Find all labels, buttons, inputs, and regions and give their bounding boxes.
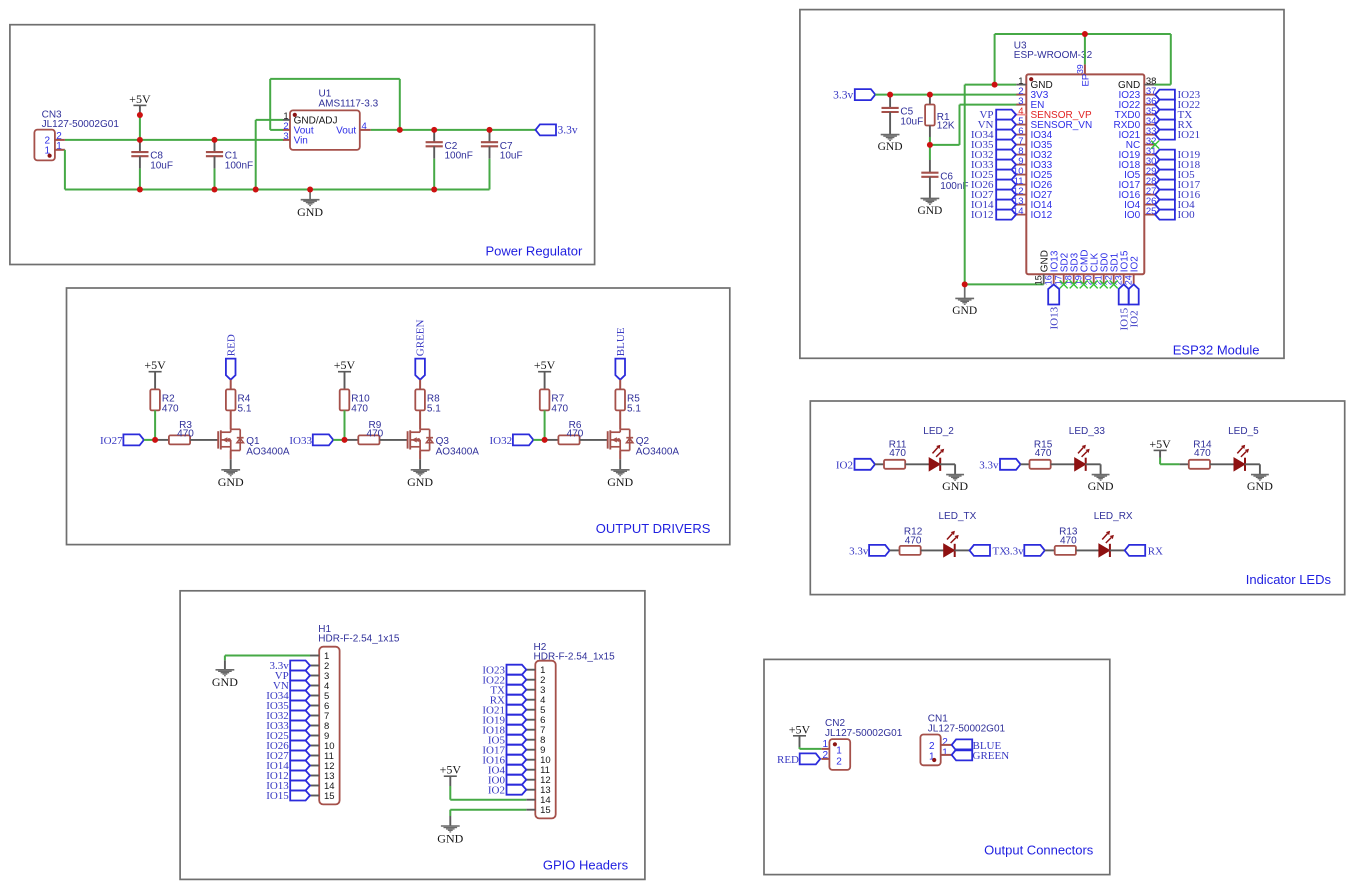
svg-text:470: 470 xyxy=(351,404,368,415)
U3 pin 2 3V3 xyxy=(1016,94,1026,96)
svg-text:1: 1 xyxy=(942,748,948,759)
ground symbol C6 xyxy=(921,198,940,204)
H2 pin 11 xyxy=(526,769,535,771)
svg-text:470: 470 xyxy=(567,428,584,439)
svg-text:IO2: IO2 xyxy=(1128,310,1140,327)
svg-text:IO12: IO12 xyxy=(971,209,994,221)
svg-text:Vin: Vin xyxy=(294,136,308,147)
block OUTPUT DRIVERS xyxy=(67,288,730,545)
U3 pin 15 GND xyxy=(1043,274,1045,284)
+5V symbol driver Q1 xyxy=(149,371,162,373)
net flag IO17 H2 xyxy=(507,745,527,755)
H2 pin 4 xyxy=(526,699,535,701)
wire CN3 pin2 to U1 Vin xyxy=(65,139,284,141)
svg-text:GND: GND xyxy=(218,475,244,489)
H1 pin 7 xyxy=(310,715,319,717)
net flag IO19 xyxy=(1155,150,1175,160)
svg-text:+5V: +5V xyxy=(334,358,356,372)
svg-text:470: 470 xyxy=(905,536,922,547)
LED LED_RX xyxy=(1076,549,1099,551)
chip U3 ESP-WROOM-32 xyxy=(1026,74,1144,274)
svg-text:24: 24 xyxy=(1124,275,1134,285)
U1 pin 4 Vout xyxy=(360,129,371,131)
svg-text:GND: GND xyxy=(917,205,942,217)
svg-text:LED_TX: LED_TX xyxy=(939,511,977,522)
wire ground rail xyxy=(65,189,490,191)
U3 pin 39 EP xyxy=(1084,64,1086,74)
svg-text:470: 470 xyxy=(1194,448,1211,459)
svg-text:+5V: +5V xyxy=(1149,437,1171,451)
header H1 xyxy=(319,647,339,805)
net flag IO26 H1 xyxy=(290,741,310,751)
U3 pin 35 TXD0 xyxy=(1144,114,1155,116)
svg-text:GREEN: GREEN xyxy=(973,750,1010,762)
net flag IO15 H1 xyxy=(290,791,310,801)
net flag RED cn2 xyxy=(800,753,821,764)
net flag IO2 bottom xyxy=(1129,284,1139,304)
net flag IO33 xyxy=(996,160,1016,170)
LED LED_2 xyxy=(905,463,929,465)
net flag IO23 H2 xyxy=(507,665,527,675)
U3 pin 19 CMD xyxy=(1083,274,1085,284)
net flag TX xyxy=(954,549,969,551)
H2 pin 10 xyxy=(526,759,535,761)
H2 pin 6 xyxy=(526,719,535,721)
U3 pin 38 GND xyxy=(1144,84,1154,86)
block Indicator LEDs xyxy=(810,401,1344,595)
wire H2 pin15 to GND xyxy=(450,809,526,811)
connector CN3 xyxy=(34,130,55,161)
net flag VN H1 xyxy=(290,681,310,691)
svg-text:3.3v: 3.3v xyxy=(833,89,853,101)
U3 pin 8 IO32 xyxy=(1016,154,1026,156)
svg-text:Output Connectors: Output Connectors xyxy=(984,843,1094,858)
net flag IO12 H1 xyxy=(290,771,310,781)
U3 pin 14 IO12 xyxy=(1016,214,1026,216)
svg-text:100nF: 100nF xyxy=(225,161,253,172)
svg-text:JL127-50002G01: JL127-50002G01 xyxy=(928,723,1006,734)
U3 pin 31 IO19 xyxy=(1144,154,1155,156)
H2 pin 3 xyxy=(526,689,535,691)
H2 pin 15 xyxy=(526,809,535,811)
CN2 pin 2 stub xyxy=(821,758,829,760)
net flag IO4 H2 xyxy=(507,765,527,775)
block Power Regulator xyxy=(10,25,595,265)
svg-text:470: 470 xyxy=(162,404,179,415)
H2 pin 12 xyxy=(526,779,535,781)
svg-text:470: 470 xyxy=(1060,536,1077,547)
capacitor C6 xyxy=(929,145,931,160)
U3 pin 3 EN xyxy=(1016,104,1026,106)
H2 pin 2 xyxy=(526,679,535,681)
U3 pin 10 IO25 xyxy=(1016,174,1026,176)
H1 pin 4 xyxy=(310,685,319,687)
regulator U1 xyxy=(290,110,360,149)
wire pullup to gate node xyxy=(154,410,156,440)
ground symbol power xyxy=(309,190,311,200)
+5V symbol driver Q3 xyxy=(338,371,351,373)
svg-text:5.1: 5.1 xyxy=(627,404,641,415)
wire ESP pin15 GND xyxy=(965,283,1044,285)
U3 pin 29 IO5 xyxy=(1144,174,1155,176)
net flag IO33 H1 xyxy=(290,721,310,731)
wire +5V to CN2 pin1 xyxy=(799,747,801,749)
net flag IO25 H1 xyxy=(290,731,310,741)
svg-text:BLUE: BLUE xyxy=(615,327,627,356)
wire 3.3v to ESP 3V3 xyxy=(875,94,1021,96)
net flag IO32 xyxy=(996,150,1016,160)
+5V symbol power xyxy=(133,104,146,106)
svg-text:+5V: +5V xyxy=(440,763,462,777)
svg-text:16: 16 xyxy=(1044,275,1054,285)
U3 pin 32 NC xyxy=(1144,144,1155,146)
capacitor C8 xyxy=(139,142,141,153)
resistor R14 xyxy=(1189,460,1210,469)
net flag BLUE cn1 xyxy=(952,739,973,750)
wire U1 ADJ to ground rail xyxy=(256,119,283,121)
block GPIO Headers xyxy=(180,591,645,880)
svg-text:IO33: IO33 xyxy=(289,435,312,447)
+5V symbol driver Q2 xyxy=(538,371,551,373)
svg-text:+5V: +5V xyxy=(129,92,151,106)
svg-text:12K: 12K xyxy=(937,121,955,132)
resistor R4 xyxy=(226,389,236,410)
net flag IO4 xyxy=(1155,200,1175,210)
wire +5V to H2 pin14 xyxy=(449,786,451,800)
net flag IO32 xyxy=(513,434,534,445)
U3 pin 17 SD2 xyxy=(1063,274,1065,284)
svg-text:5.1: 5.1 xyxy=(427,404,441,415)
net flag IO35 xyxy=(996,140,1016,150)
net flag IO2 led xyxy=(855,459,876,470)
U1 pin 3 Vin xyxy=(283,139,290,141)
svg-text:GND: GND xyxy=(407,475,433,489)
H1 pin 10 xyxy=(310,745,319,747)
U3 pin 30 IO18 xyxy=(1144,164,1155,166)
wire ESP GND top rail xyxy=(995,33,1171,35)
net flag TX xyxy=(1155,110,1175,120)
U3 pin 7 IO35 xyxy=(1016,144,1026,146)
connector CN2 xyxy=(829,739,850,770)
H2 pin 5 xyxy=(526,709,535,711)
svg-text:3.3v: 3.3v xyxy=(849,546,869,558)
H1 pin 11 xyxy=(310,755,319,757)
CN2 pin 1 stub xyxy=(821,748,829,750)
transistor Q2 xyxy=(607,431,609,448)
resistor R9 xyxy=(345,439,359,441)
U3 pin 20 CLK xyxy=(1093,274,1095,284)
U3 pin 1 GND xyxy=(1016,84,1026,86)
svg-text:10uF: 10uF xyxy=(900,116,923,127)
net flag IO5 H2 xyxy=(507,735,527,745)
svg-text:17: 17 xyxy=(1054,275,1064,285)
resistor R6 xyxy=(545,439,559,441)
svg-text:IO2: IO2 xyxy=(1129,256,1140,273)
capacitor C1 xyxy=(214,142,216,153)
svg-text:Vout: Vout xyxy=(336,126,356,137)
net flag IO26 xyxy=(996,180,1016,190)
svg-text:GND: GND xyxy=(942,479,968,493)
U3 pin 24 IO2 xyxy=(1133,274,1135,284)
U3 pin 4 SENSOR_VP xyxy=(1016,114,1026,116)
wire pullup to gate node xyxy=(544,410,546,440)
svg-text:470: 470 xyxy=(551,404,568,415)
H2 pin 13 xyxy=(526,789,535,791)
svg-text:39: 39 xyxy=(1075,64,1085,74)
svg-text:HDR-F-2.54_1x15: HDR-F-2.54_1x15 xyxy=(318,633,400,644)
U1 pin 2 Vout xyxy=(283,129,290,131)
capacitor C2 xyxy=(433,132,435,143)
U3 pin 33 IO21 xyxy=(1144,134,1155,136)
svg-text:1: 1 xyxy=(836,746,842,757)
svg-text:Power Regulator: Power Regulator xyxy=(485,243,582,258)
svg-text:GND: GND xyxy=(878,141,903,153)
net flag IO0 H2 xyxy=(507,775,527,785)
U3 pin 23 IO15 xyxy=(1123,274,1125,284)
svg-text:+5V: +5V xyxy=(534,358,556,372)
net flag IO27 xyxy=(123,434,143,445)
U3 pin 34 RXD0 xyxy=(1144,124,1155,126)
net flag IO16 xyxy=(1155,190,1175,200)
net flag RX xyxy=(1155,120,1175,130)
H2 pin 8 xyxy=(526,739,535,741)
net flag IO21 xyxy=(1155,130,1175,140)
U3 pin 12 IO27 xyxy=(1016,194,1026,196)
svg-text:+5V: +5V xyxy=(144,358,166,372)
H1 pin 15 xyxy=(310,795,319,797)
H1 pin 5 xyxy=(310,695,319,697)
net flag RED xyxy=(226,359,236,380)
svg-text:GND: GND xyxy=(952,305,977,317)
H2 pin 9 xyxy=(526,749,535,751)
junction dots xyxy=(137,112,143,118)
capacitor C7 xyxy=(489,132,491,143)
svg-text:IO2: IO2 xyxy=(488,784,505,796)
H1 pin 3 xyxy=(310,675,319,677)
block ESP32 Module xyxy=(800,10,1284,359)
net flag IO22 H2 xyxy=(507,675,527,685)
net flag 3.3v H1 xyxy=(290,661,310,671)
net flag GREEN xyxy=(415,359,425,380)
net flag IO33 xyxy=(313,434,334,445)
svg-text:470: 470 xyxy=(1035,448,1052,459)
svg-text:OUTPUT DRIVERS: OUTPUT DRIVERS xyxy=(596,521,711,536)
net flag IO23 xyxy=(1155,90,1175,100)
resistor R10 xyxy=(340,389,350,410)
U3 pin 25 IO0 xyxy=(1144,214,1155,216)
CN1 pin 2 stub xyxy=(941,744,952,746)
U1 pin 1 GND/ADJ xyxy=(283,119,290,121)
svg-text:GND: GND xyxy=(437,831,463,845)
H1 pin 9 xyxy=(310,735,319,737)
U3 pin 5 SENSOR_VN xyxy=(1016,124,1026,126)
CN3 pin 2 stub xyxy=(55,139,65,141)
svg-text:IO2: IO2 xyxy=(836,460,853,472)
net flag IO25 xyxy=(996,170,1016,180)
net flag RX xyxy=(1110,549,1125,551)
U3 pin 27 IO16 xyxy=(1144,194,1155,196)
transistor Q3 xyxy=(407,431,409,448)
+5V symbol CN2 xyxy=(793,735,806,737)
svg-text:LED_5: LED_5 xyxy=(1228,426,1259,437)
svg-text:100nF: 100nF xyxy=(445,151,473,162)
H1 pin 6 xyxy=(310,705,319,707)
ground symbol ESP xyxy=(964,284,966,298)
resistor R2 xyxy=(150,389,160,410)
resistor R5 xyxy=(615,389,625,410)
net flag IO22 xyxy=(1155,100,1175,110)
svg-text:3.3v: 3.3v xyxy=(558,125,578,137)
U3 pin 22 SD1 xyxy=(1113,274,1115,284)
ground symbol C5 xyxy=(881,135,900,141)
svg-text:JL127-50002G01: JL127-50002G01 xyxy=(42,119,120,130)
connector CN1 xyxy=(920,735,940,766)
net flag VN xyxy=(996,120,1016,130)
net flag IO19 H2 xyxy=(507,715,527,725)
svg-text:3.3v: 3.3v xyxy=(979,460,999,472)
CN1 pin 1 stub xyxy=(941,754,952,756)
transistor Q1 xyxy=(217,431,219,448)
ground Q2 xyxy=(619,451,621,460)
svg-text:15: 15 xyxy=(1034,275,1044,285)
net flag IO15 bottom xyxy=(1119,284,1129,304)
svg-text:470: 470 xyxy=(367,428,384,439)
resistor R3 xyxy=(155,439,169,441)
LED LED_5 xyxy=(1210,463,1234,465)
H1 pin 2 xyxy=(310,665,319,667)
U3 pin 16 IO13 xyxy=(1053,274,1055,284)
ground symbol H1 xyxy=(216,670,235,676)
net flag IO12 xyxy=(996,210,1016,220)
svg-text:GND: GND xyxy=(1088,479,1114,493)
svg-text:GND: GND xyxy=(607,475,633,489)
resistor R12 xyxy=(890,549,900,551)
svg-text:IO0: IO0 xyxy=(1178,209,1196,221)
wire pullup to gate node xyxy=(344,410,346,440)
svg-text:2: 2 xyxy=(942,737,948,748)
U3 pin 37 IO23 xyxy=(1144,94,1155,96)
svg-text:Indicator LEDs: Indicator LEDs xyxy=(1246,572,1332,587)
wire H1 pin1 to GND xyxy=(225,655,310,657)
resistor R8 xyxy=(415,389,425,410)
H1 pin 8 xyxy=(310,725,319,727)
svg-text:IO32: IO32 xyxy=(489,435,512,447)
net flag IO35 H1 xyxy=(290,701,310,711)
net flag IO5 xyxy=(1155,170,1175,180)
svg-text:GPIO Headers: GPIO Headers xyxy=(543,858,629,873)
svg-text:2: 2 xyxy=(929,741,935,752)
H2 pin 7 xyxy=(526,729,535,731)
H1 pin 12 xyxy=(310,765,319,767)
U3 pin 6 IO34 xyxy=(1016,134,1026,136)
svg-text:AMS1117-3.3: AMS1117-3.3 xyxy=(319,98,379,109)
net flag IO27 xyxy=(996,190,1016,200)
resistor R1 xyxy=(929,96,931,104)
wire U1 output to 3.3v xyxy=(371,129,536,131)
svg-text:3.3v: 3.3v xyxy=(1004,546,1024,558)
H1 pin 14 xyxy=(310,785,319,787)
net flag IO27 H1 xyxy=(290,751,310,761)
net flag 3.3v led row2 xyxy=(869,545,890,556)
svg-text:15: 15 xyxy=(540,805,551,816)
net flag IO18 H2 xyxy=(507,725,527,735)
net flag IO34 xyxy=(996,130,1016,140)
svg-text:GND: GND xyxy=(212,675,238,689)
net flag IO13 H1 xyxy=(290,781,310,791)
U3 pin 28 IO17 xyxy=(1144,184,1155,186)
net flag 3.3v output xyxy=(536,124,557,135)
svg-text:2: 2 xyxy=(836,757,842,768)
svg-text:LED_RX: LED_RX xyxy=(1094,511,1133,522)
H1 pin 13 xyxy=(310,775,319,777)
ground LED_2 xyxy=(940,463,955,465)
wire ESP pin1 GND xyxy=(965,84,1017,86)
net flag 3.3v led xyxy=(1000,459,1021,470)
ground symbol H2 xyxy=(441,826,460,832)
svg-text:4: 4 xyxy=(362,121,367,132)
U3 pin 9 IO33 xyxy=(1016,164,1026,166)
svg-text:+5V: +5V xyxy=(789,722,811,736)
svg-text:LED_33: LED_33 xyxy=(1069,426,1106,437)
capacitor C5 xyxy=(889,96,891,108)
svg-text:GND: GND xyxy=(1247,479,1273,493)
ground Q1 xyxy=(230,451,232,460)
net flag IO14 xyxy=(996,200,1016,210)
net flag 3.3v esp xyxy=(855,89,876,100)
wire CN3 pin1 down xyxy=(64,150,66,190)
svg-text:3: 3 xyxy=(283,131,288,142)
net flag IO16 H2 xyxy=(507,755,527,765)
svg-text:IO0: IO0 xyxy=(1124,210,1141,221)
svg-text:LED_2: LED_2 xyxy=(923,426,954,437)
svg-text:AO3400A: AO3400A xyxy=(636,446,680,457)
net flag IO14 H1 xyxy=(290,761,310,771)
svg-text:IO15: IO15 xyxy=(266,790,289,802)
no-connect X pin 32 xyxy=(1151,141,1159,149)
svg-text:RED: RED xyxy=(777,754,799,766)
H2 pin 14 xyxy=(526,799,535,801)
net flag IO0 xyxy=(1155,210,1175,220)
net flag VP H1 xyxy=(290,671,310,681)
wire feedback loop xyxy=(270,129,283,131)
net flag VP xyxy=(996,110,1016,120)
LED LED_TX xyxy=(921,549,944,551)
+5V symbol LED_5 xyxy=(1154,449,1167,451)
net flag TX H2 xyxy=(507,685,527,695)
U3 pin 21 SD0 xyxy=(1103,274,1105,284)
svg-text:470: 470 xyxy=(177,428,194,439)
svg-text:15: 15 xyxy=(324,791,335,802)
resistor R15 xyxy=(1030,460,1051,469)
net flag IO34 H1 xyxy=(290,691,310,701)
net flag 3.3v led row2 xyxy=(1024,545,1045,556)
net flag IO18 xyxy=(1155,160,1175,170)
svg-text:IO12: IO12 xyxy=(1031,210,1053,221)
net flag BLUE xyxy=(615,359,625,380)
header H2 xyxy=(535,661,555,819)
svg-text:ESP32 Module: ESP32 Module xyxy=(1173,343,1260,358)
net flag IO32 H1 xyxy=(290,711,310,721)
U3 pin 11 IO26 xyxy=(1016,184,1026,186)
svg-text:IO13: IO13 xyxy=(1048,306,1060,329)
svg-text:AO3400A: AO3400A xyxy=(246,446,290,457)
H2 pin 1 xyxy=(526,669,535,671)
svg-text:5.1: 5.1 xyxy=(238,404,252,415)
svg-text:GND: GND xyxy=(297,205,323,219)
svg-text:IO21: IO21 xyxy=(1178,129,1201,141)
net flag IO13 bottom xyxy=(1048,284,1059,304)
LED LED_33 xyxy=(1051,463,1075,465)
